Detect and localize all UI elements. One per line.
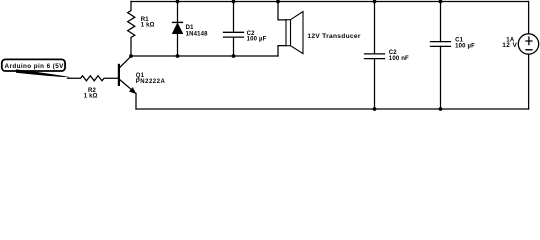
- svg-text:1 kΩ: 1 kΩ: [141, 22, 155, 28]
- svg-text:1N4148: 1N4148: [186, 32, 209, 38]
- wire collector node line: [131, 55, 278, 57]
- wire right column lower: [528, 54, 530, 109]
- svg-text:Arduino pin 6 (5V): Arduino pin 6 (5V): [5, 63, 67, 70]
- transistor Q1: [118, 65, 120, 85]
- wire right column upper: [528, 2, 530, 34]
- svg-text:100 µF: 100 µF: [247, 37, 267, 43]
- svg-text:Q1: Q1: [136, 73, 145, 79]
- resistor R1: [128, 2, 135, 57]
- transducer LS1 wires: [278, 2, 286, 20]
- resistor R2: [68, 76, 118, 81]
- capacitor C1 100uF: [440, 2, 442, 42]
- diode D1: [177, 2, 179, 23]
- callout Arduino pin 6 (5V): [2, 59, 71, 77]
- svg-text:100 µF: 100 µF: [455, 44, 475, 50]
- transducer LS1 body: [286, 12, 303, 54]
- svg-text:1 kΩ: 1 kΩ: [84, 94, 98, 100]
- svg-text:D1: D1: [186, 25, 195, 31]
- capacitor C2 100nF: [374, 2, 376, 54]
- power source V1: [518, 34, 538, 54]
- capacitor C2 100uF: [233, 2, 235, 33]
- svg-text:100 nF: 100 nF: [389, 56, 409, 62]
- svg-text:12V Transducer: 12V Transducer: [307, 33, 360, 40]
- diode D1 body: [172, 23, 182, 33]
- wire top rail: [131, 1, 529, 3]
- wire bottom rail: [136, 108, 529, 110]
- svg-text:PN2222A: PN2222A: [136, 79, 166, 85]
- transistor Q1 emitter arrow: [130, 88, 136, 94]
- svg-text:12 V: 12 V: [502, 42, 517, 49]
